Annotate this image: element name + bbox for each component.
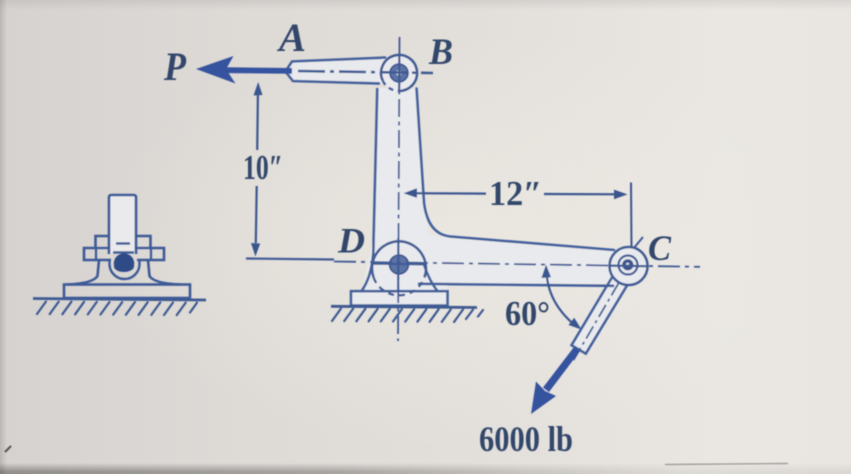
pin at D bbox=[390, 255, 409, 274]
pin boss D fill bbox=[372, 238, 426, 292]
bracket at D fill bbox=[362, 235, 448, 291]
ball in left support bbox=[114, 253, 134, 272]
centerline horizontal through D and C bbox=[334, 262, 700, 267]
svg-text:D: D bbox=[337, 221, 365, 261]
svg-text:C: C bbox=[648, 228, 672, 268]
pin at C bbox=[622, 259, 633, 270]
svg-text:P: P bbox=[163, 44, 186, 89]
svg-text:A: A bbox=[276, 15, 306, 60]
arc arrowhead bottom bbox=[569, 318, 582, 330]
base plate of left support bbox=[64, 285, 190, 299]
arm DC bottom edge bbox=[419, 284, 613, 286]
dash above ball bbox=[113, 251, 134, 253]
svg-text:60°: 60° bbox=[505, 294, 550, 333]
corner fillet fill bbox=[420, 200, 450, 250]
left support pedestal bbox=[64, 195, 190, 298]
hatching at D ground bbox=[332, 309, 483, 323]
hidden dash in bearing bbox=[116, 242, 130, 244]
pin boss B fill bbox=[381, 55, 417, 91]
ground line at D bbox=[331, 306, 477, 307]
vertical rod of left support bbox=[109, 195, 136, 254]
svg-text:B: B bbox=[428, 32, 453, 73]
bracket right side at D bbox=[425, 266, 438, 291]
member BD left edge bbox=[362, 89, 378, 291]
bracket sides of left support bbox=[67, 260, 180, 285]
member BD right edge and arm top edge bbox=[417, 89, 615, 251]
60 degree arc bbox=[547, 270, 578, 327]
hatching left support ground bbox=[37, 302, 197, 316]
force arrow 6000 lb bbox=[531, 347, 580, 414]
pin at B bbox=[390, 64, 408, 82]
pin boss C fill bbox=[610, 247, 648, 285]
link AB (rod) fill bbox=[286, 58, 399, 85]
link at C fill bbox=[572, 272, 630, 354]
arc arrowhead top bbox=[542, 265, 552, 279]
centerline vertical through B and D bbox=[398, 37, 400, 341]
force arrow P bbox=[196, 56, 292, 84]
extension line above C bbox=[630, 183, 633, 249]
leader tick at C bbox=[634, 237, 644, 249]
link at C outline bbox=[572, 272, 630, 354]
svg-text:6000 lb: 6000 lb bbox=[479, 419, 573, 459]
reference line at D level for 10in dimension bbox=[246, 259, 334, 260]
cup under ball bbox=[110, 259, 140, 279]
inner ring at C bbox=[619, 256, 638, 275]
bearing upper plate bbox=[84, 236, 164, 260]
boss C outline bbox=[610, 247, 648, 285]
rod AB outline bbox=[286, 58, 386, 84]
stray pen tick bottom left bbox=[5, 446, 11, 452]
boss fills bbox=[372, 55, 648, 292]
support base plate at D fill bbox=[351, 291, 448, 306]
bearing band bottom segments bbox=[96, 259, 151, 261]
support base plate at D outline bbox=[351, 291, 448, 305]
boss B outline bbox=[381, 55, 417, 91]
arm DC fill bbox=[415, 238, 618, 284]
centerline horizontal through B and rod bbox=[298, 71, 433, 73]
svg-text:12″: 12″ bbox=[489, 174, 542, 213]
faint line bottom right bbox=[665, 464, 788, 465]
ground line left support bbox=[33, 299, 206, 301]
10in dimension line bbox=[251, 82, 263, 257]
bearing band inner ticks bbox=[96, 248, 151, 260]
svg-text:10″: 10″ bbox=[243, 148, 283, 187]
boss D outline bbox=[372, 241, 426, 295]
12in dimension line bbox=[404, 188, 628, 199]
centerline of link at C bbox=[573, 283, 619, 361]
member BD fill bbox=[373, 88, 426, 240]
